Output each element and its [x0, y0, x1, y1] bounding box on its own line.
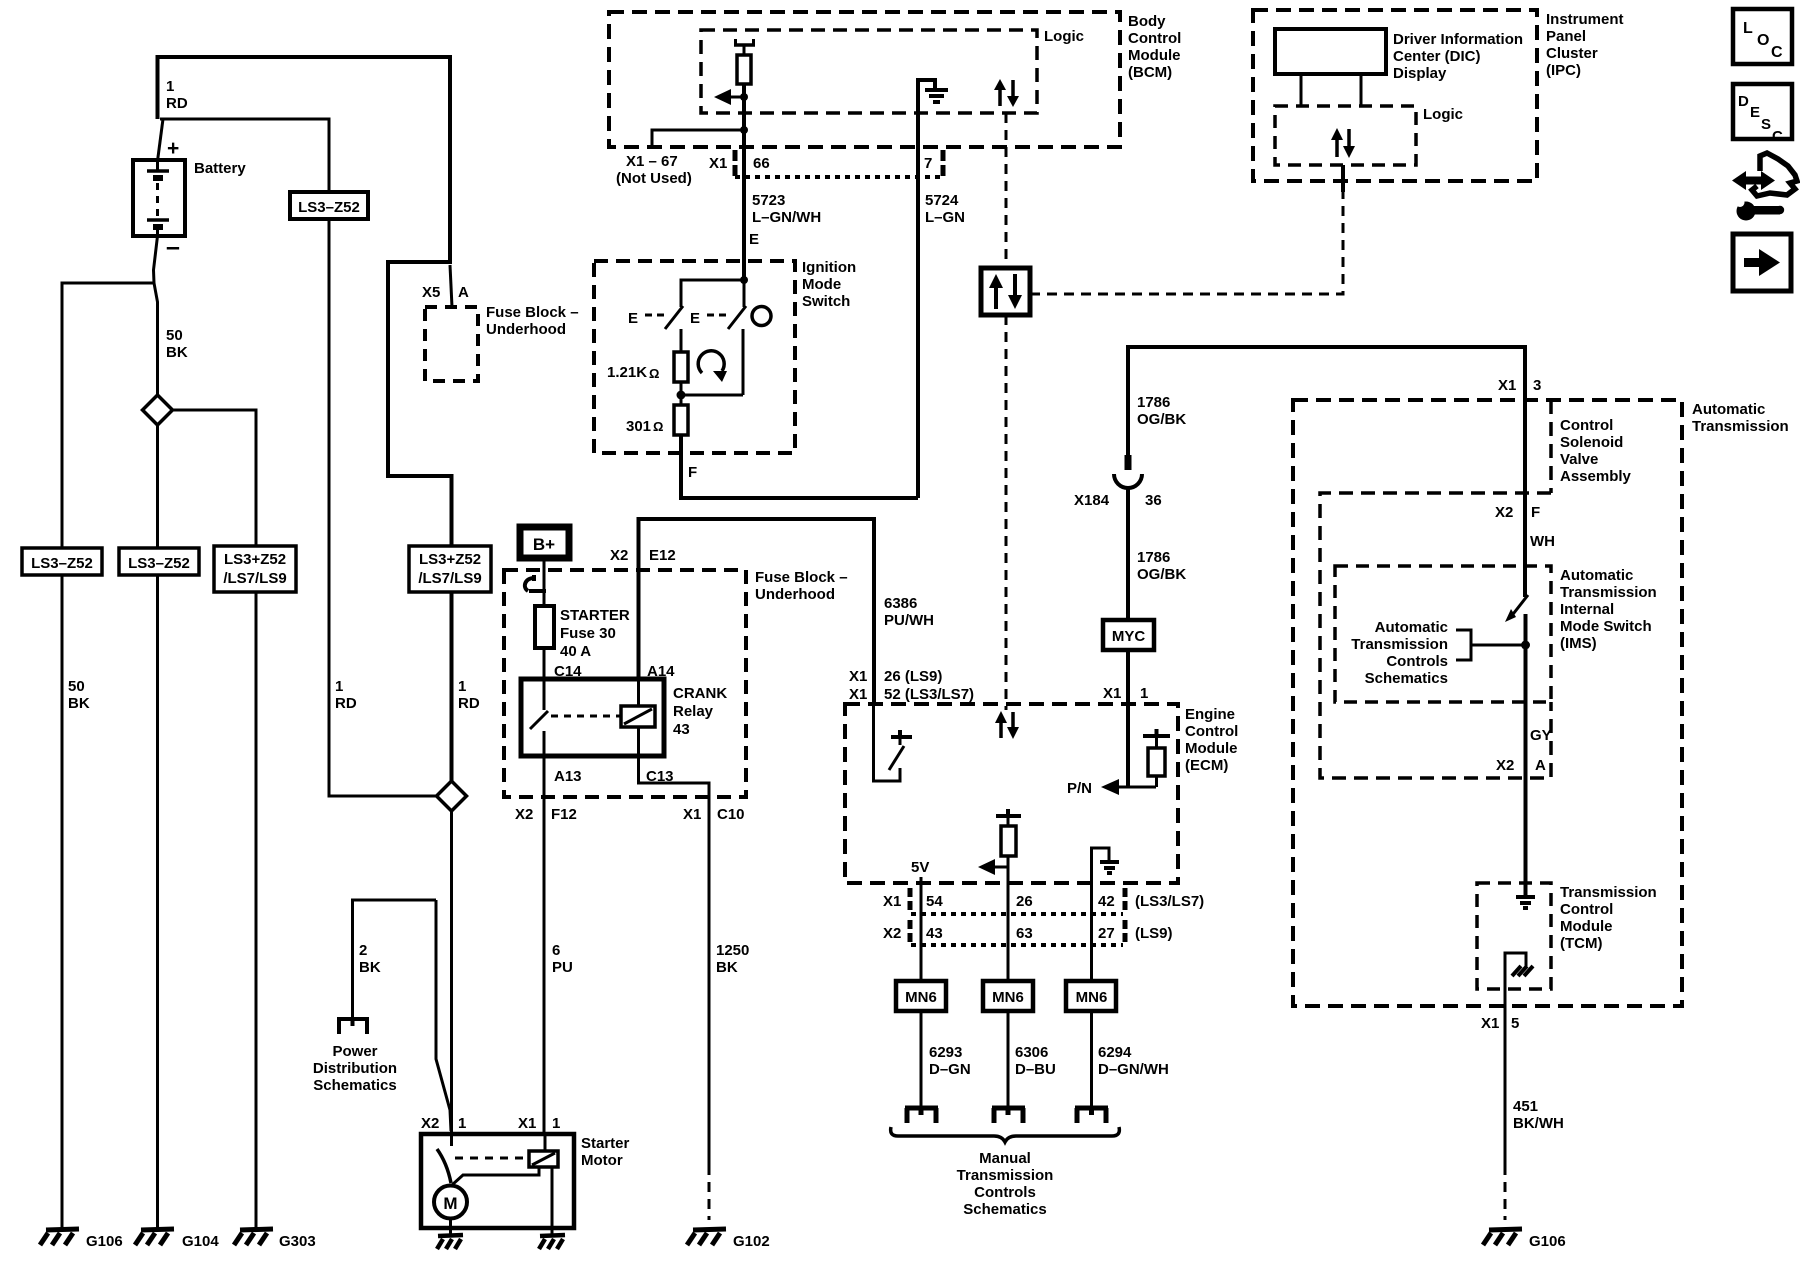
svg-text:6306: 6306 [1015, 1044, 1048, 1061]
terminal symbol (6293) [905, 1108, 938, 1123]
label manual transmission controls schematics [957, 1150, 1054, 1218]
rotary symbol [698, 351, 727, 382]
starter solenoid to motor link [452, 1167, 539, 1185]
wire 5723 L-GN/WH BCM pin 66 to ignition switch E [744, 147, 821, 280]
starter motor box [421, 1134, 630, 1228]
control solenoid valve dashed box [1320, 493, 1551, 778]
connector X1 pin 3 labels [1498, 377, 1541, 394]
svg-text:D–BU: D–BU [1015, 1061, 1056, 1078]
svg-text:1.21K: 1.21K [607, 364, 647, 381]
svg-text:Body: Body [1128, 13, 1166, 30]
svg-text:Manual: Manual [979, 1150, 1031, 1167]
svg-text:STARTER: STARTER [560, 607, 630, 624]
svg-text:Schematics: Schematics [963, 1201, 1046, 1218]
wire branch from diamond to column 3 [173, 410, 257, 1228]
svg-text:D–GN: D–GN [929, 1061, 971, 1078]
wire starter motor to ground [449, 1219, 452, 1234]
svg-text:WH: WH [1530, 533, 1555, 550]
svg-text:451: 451 [1513, 1098, 1538, 1115]
svg-text:Distribution: Distribution [313, 1060, 397, 1077]
wire ECM P/N sense with arrow [1067, 704, 1156, 797]
body control module BCM dashed box [609, 12, 1181, 147]
serial data arrows in BCM logic [994, 79, 1019, 107]
svg-text:Display: Display [1393, 65, 1447, 82]
svg-text:L: L [1743, 20, 1753, 37]
label 50 BK (left wire) [68, 678, 90, 712]
wire battery positive lead [158, 119, 164, 161]
wire crank relay A14 to ECM (6386 PU/WH) [639, 519, 935, 704]
svg-text:X1 – 67: X1 – 67 [626, 153, 678, 170]
connector box LS3+Z52/LS7/LS9 (column 3) [214, 546, 296, 592]
label 1 RD (battery bus) [166, 78, 188, 112]
svg-text:F: F [688, 464, 697, 481]
svg-text:CRANK: CRANK [673, 685, 727, 702]
wire 1250 BK relay C13 to G102 [639, 756, 750, 1220]
connector X1 pin 1 labels (starter) [518, 1115, 560, 1132]
connector X1 26/52 labels at ECM [849, 668, 974, 703]
svg-text:Underhood: Underhood [486, 321, 566, 338]
svg-text:GY: GY [1530, 727, 1552, 744]
resistor 1.21K ohm [607, 352, 688, 382]
svg-text:6294: 6294 [1098, 1044, 1132, 1061]
wire ECM pin 42/27 to MN6 [1090, 883, 1093, 981]
starter solenoid coil [529, 1134, 558, 1167]
svg-text:27: 27 [1098, 925, 1115, 942]
ignition mode switch dashed box [594, 259, 856, 453]
svg-text:54: 54 [926, 893, 943, 910]
icon DESC box [1733, 84, 1792, 145]
svg-text:301: 301 [626, 418, 651, 435]
label Power Distribution Schematics [313, 1043, 397, 1094]
ground starter solenoid [539, 1235, 565, 1249]
connector box LS3-Z52 (column 2) [119, 548, 199, 575]
svg-text:(TCM): (TCM) [1560, 935, 1602, 952]
svg-text:1: 1 [458, 678, 466, 695]
svg-text:Schematics: Schematics [313, 1077, 396, 1094]
serial data arrows in ECM [995, 711, 1019, 739]
resistor (BCM pull-up) with internal connection bar [734, 39, 755, 84]
wire 1788 OG/BK lower run to MYC [1128, 488, 1186, 620]
svg-text:Control: Control [1185, 723, 1238, 740]
svg-text:/LS7/LS9: /LS7/LS9 [418, 570, 481, 587]
svg-text:X2: X2 [421, 1115, 439, 1132]
svg-text:(Not Used): (Not Used) [616, 170, 692, 187]
svg-text:S: S [1761, 116, 1771, 133]
terminal symbol (6294) [1075, 1108, 1108, 1123]
svg-text:Control: Control [1128, 30, 1181, 47]
connector X1 C10 labels [683, 806, 745, 823]
svg-text:Engine: Engine [1185, 706, 1235, 723]
svg-text:Assembly: Assembly [1560, 468, 1632, 485]
ECM 5V reference stub [911, 859, 929, 890]
svg-text:X1: X1 [683, 806, 701, 823]
dashed serial data wire gateway to IPC [1030, 190, 1343, 294]
svg-text:E: E [749, 231, 759, 248]
svg-text:O: O [1757, 32, 1769, 49]
wire starter solenoid to ground [551, 1167, 554, 1234]
svg-text:Fuse 30: Fuse 30 [560, 625, 616, 642]
svg-text:Battery: Battery [194, 160, 246, 177]
dashed serial data wire gateway to ECM [1005, 315, 1008, 710]
connector box LS3-Z52 (top, feed wire) [290, 192, 368, 219]
svg-text:B+: B+ [533, 535, 555, 554]
svg-text:Controls: Controls [974, 1184, 1036, 1201]
svg-text:X2: X2 [1496, 757, 1514, 774]
svg-text:(LS9): (LS9) [1135, 925, 1173, 942]
svg-text:X2: X2 [883, 925, 901, 942]
svg-text:Automatic: Automatic [1692, 401, 1765, 418]
svg-text:Transmission: Transmission [1560, 584, 1657, 601]
automatic transmission dashed box [1293, 400, 1789, 1006]
svg-text:Automatic: Automatic [1375, 619, 1448, 636]
terminal symbol power distribution reference [337, 1019, 369, 1034]
svg-text:Internal: Internal [1560, 601, 1614, 618]
svg-text:6: 6 [552, 942, 560, 959]
brace manual transmission reference [891, 1127, 1120, 1142]
splice diamond (battery ground wire) [143, 395, 173, 425]
svg-text:M: M [443, 1194, 457, 1213]
svg-text:/LS7/LS9: /LS7/LS9 [223, 570, 286, 587]
BCM logic dashed box [701, 28, 1084, 113]
ground starter motor [437, 1235, 463, 1249]
svg-text:Mode Switch: Mode Switch [1560, 618, 1652, 635]
icon forward arrow box [1733, 234, 1791, 291]
svg-text:Ω: Ω [649, 366, 659, 381]
svg-text:X2: X2 [610, 547, 628, 564]
wire MYC to ECM pin X1-1 [1103, 650, 1148, 704]
svg-text:D–GN/WH: D–GN/WH [1098, 1061, 1169, 1078]
svg-text:X1: X1 [518, 1115, 536, 1132]
starter motor M [434, 1186, 467, 1219]
svg-text:2: 2 [359, 942, 367, 959]
svg-text:Motor: Motor [581, 1152, 623, 1169]
svg-text:42: 42 [1098, 893, 1115, 910]
wire 6294 D-GN/WH [1092, 1011, 1169, 1106]
svg-text:Ignition: Ignition [802, 259, 856, 276]
svg-text:1786: 1786 [1137, 549, 1170, 566]
svg-text:P/N: P/N [1067, 780, 1092, 797]
svg-text:OG/BK: OG/BK [1137, 566, 1186, 583]
svg-text:Control: Control [1560, 417, 1613, 434]
svg-text:66: 66 [753, 155, 770, 172]
svg-text:X1: X1 [849, 668, 867, 685]
wire 1 RD battery bus (thick) to fuse block feed [158, 57, 452, 796]
label 50 BK (battery wire) [166, 327, 188, 361]
svg-text:F12: F12 [551, 806, 577, 823]
battery [133, 137, 246, 261]
wire 5724 L-GN BCM pin 7 to ignition switch F junction [918, 147, 965, 498]
svg-text:Logic: Logic [1423, 106, 1463, 123]
connector X2 F12 labels [515, 806, 577, 823]
svg-text:X2: X2 [1495, 504, 1513, 521]
ECM connector rows X1/X2 [883, 888, 1204, 945]
svg-text:1: 1 [166, 78, 174, 95]
BCM internal ground [918, 80, 948, 147]
svg-text:Starter: Starter [581, 1135, 630, 1152]
wire 50 BK from battery negative down to G104 [154, 236, 158, 1228]
svg-text:X5: X5 [422, 284, 440, 301]
DIC display legs [1301, 74, 1361, 106]
dashed serial data wire BCM to gateway box [1005, 113, 1008, 267]
pin A13 label [554, 768, 582, 785]
svg-text:C: C [1772, 128, 1783, 145]
svg-text:Module: Module [1560, 918, 1613, 935]
svg-text:A: A [458, 284, 469, 301]
BCM connector row X1 pins 66 and 7 [709, 150, 943, 177]
svg-text:LS3+Z52: LS3+Z52 [224, 551, 286, 568]
svg-text:(IMS): (IMS) [1560, 635, 1597, 652]
svg-text:43: 43 [673, 721, 690, 738]
svg-text:3: 3 [1533, 377, 1541, 394]
svg-text:Module: Module [1185, 740, 1238, 757]
wire 6293 D-GN [921, 1011, 971, 1106]
serial data arrows in IPC logic [1331, 128, 1355, 158]
svg-text:26 (LS9): 26 (LS9) [884, 668, 942, 685]
svg-text:Logic: Logic [1044, 28, 1084, 45]
icon LOC box [1733, 9, 1792, 64]
svg-text:(IPC): (IPC) [1546, 62, 1581, 79]
reference bracket automatic transmission controls schematics [1351, 619, 1525, 687]
ECM crank request switch [874, 704, 913, 781]
svg-text:Switch: Switch [802, 293, 850, 310]
junction node below 1.21K [677, 382, 744, 400]
svg-text:Schematics: Schematics [1365, 670, 1448, 687]
svg-text:D: D [1738, 93, 1749, 110]
svg-text:RD: RD [458, 695, 480, 712]
control solenoid valve assembly boundary [1551, 400, 1632, 493]
svg-text:BK: BK [359, 959, 381, 976]
svg-text:Ω: Ω [653, 419, 663, 434]
connector box MN6 (1) [896, 981, 946, 1011]
wire 1 RD diamond to starter motor X2-1 [450, 811, 453, 1134]
svg-text:BK/WH: BK/WH [1513, 1115, 1564, 1132]
wire WH transmission feed [1495, 400, 1555, 597]
svg-text:C: C [1771, 44, 1783, 61]
svg-text:RD: RD [335, 695, 357, 712]
wire F output of ignition switch [681, 395, 918, 498]
svg-text:E12: E12 [649, 547, 676, 564]
pin C14 label [554, 663, 582, 680]
svg-text:43: 43 [926, 925, 943, 942]
svg-text:Automatic: Automatic [1560, 567, 1633, 584]
wire from battery positive to LS3-Z52 box [160, 119, 329, 192]
svg-text:PU/WH: PU/WH [884, 612, 934, 629]
svg-text:1: 1 [1140, 685, 1148, 702]
svg-text:G106: G106 [1529, 1233, 1566, 1250]
svg-text:RD: RD [166, 95, 188, 112]
starter solenoid switch [437, 1134, 528, 1183]
ground G303 [234, 1229, 316, 1250]
ground G106 (right) [1483, 1229, 1566, 1250]
svg-text:LS3+Z52: LS3+Z52 [419, 551, 481, 568]
svg-text:36: 36 [1145, 492, 1162, 509]
svg-text:OG/BK: OG/BK [1137, 411, 1186, 428]
TCM internal ground (top) [1516, 897, 1535, 908]
svg-text:Solenoid: Solenoid [1560, 434, 1623, 451]
svg-text:G303: G303 [279, 1233, 316, 1250]
svg-text:C10: C10 [717, 806, 745, 823]
connector box LS3-Z52 (column 1) [22, 548, 102, 575]
ground G106 (left) [40, 1229, 123, 1250]
wire 6 PU relay A13 to starter X1-1 [544, 756, 573, 1134]
svg-text:E: E [1750, 104, 1760, 121]
terminal symbol (6306) [992, 1108, 1025, 1123]
svg-text:Instrument: Instrument [1546, 11, 1624, 28]
svg-text:G102: G102 [733, 1233, 770, 1250]
DIC display box [1275, 29, 1523, 82]
svg-text:50: 50 [166, 327, 183, 344]
svg-text:X1: X1 [1481, 1015, 1499, 1032]
wire from LS3-Z52 box down to diamond 2 [329, 219, 437, 796]
svg-text:LS3–Z52: LS3–Z52 [128, 555, 190, 572]
svg-text:X1: X1 [849, 686, 867, 703]
svg-text:Underhood: Underhood [755, 586, 835, 603]
ECM internal ground [1092, 848, 1120, 883]
svg-text:MYC: MYC [1112, 628, 1146, 645]
icon vehicle data with wrench [1732, 153, 1797, 221]
svg-text:A14: A14 [647, 663, 675, 680]
connector box MN6 (3) [1066, 981, 1116, 1011]
wire 50 BK left branch from battery negative to G106 [62, 283, 154, 1228]
svg-text:Panel: Panel [1546, 28, 1586, 45]
svg-text:Cluster: Cluster [1546, 45, 1598, 62]
svg-text:Fuse Block –: Fuse Block – [755, 569, 848, 586]
TCM internal chassis ground (case) [1505, 953, 1533, 989]
svg-text:1: 1 [458, 1115, 466, 1132]
wire 5723 inside BCM [740, 84, 748, 147]
IPC logic dashed box [1275, 106, 1463, 165]
wire 6306 D-BU [1008, 1011, 1056, 1106]
svg-text:G106: G106 [86, 1233, 123, 1250]
automatic transmission internal mode switch IMS dashed box [1335, 566, 1657, 702]
svg-text:MN6: MN6 [992, 989, 1024, 1006]
svg-text:X1: X1 [1498, 377, 1516, 394]
svg-text:50: 50 [68, 678, 85, 695]
svg-text:X1: X1 [709, 155, 727, 172]
svg-text:1250: 1250 [716, 942, 749, 959]
svg-text:7: 7 [924, 155, 932, 172]
svg-text:1: 1 [335, 678, 343, 695]
svg-text:63: 63 [1016, 925, 1033, 942]
resistor 301 ohm [626, 405, 688, 435]
ground G102 [687, 1229, 770, 1250]
serial data stub below IPC logic [1341, 165, 1345, 192]
ground G104 [135, 1229, 219, 1250]
svg-text:LS3–Z52: LS3–Z52 [298, 199, 360, 216]
pin A14 label [647, 663, 675, 680]
svg-text:BK: BK [166, 344, 188, 361]
svg-text:L–GN: L–GN [925, 209, 965, 226]
svg-text:Transmission: Transmission [1351, 636, 1448, 653]
wire ECM pin 54/43 to MN6 [920, 890, 923, 981]
svg-text:A: A [1535, 757, 1546, 774]
svg-text:X1: X1 [1103, 685, 1121, 702]
engine control module ECM dashed box [845, 704, 1238, 883]
svg-text:Transmission: Transmission [957, 1167, 1054, 1184]
svg-text:Fuse Block –: Fuse Block – [486, 304, 579, 321]
fuse block underhood connector dashed box (X5) [425, 304, 579, 381]
wire B+ to starter fuse [543, 558, 546, 606]
splice diamond 2 (starter feed) [437, 781, 467, 811]
svg-text:40 A: 40 A [560, 643, 591, 660]
svg-text:Module: Module [1128, 47, 1181, 64]
svg-text:Power: Power [332, 1043, 377, 1060]
svg-text:E: E [628, 310, 638, 327]
svg-text:MN6: MN6 [1076, 989, 1108, 1006]
wire IMS to TCM (GY) [1496, 614, 1552, 896]
connector box MN6 (2) [983, 981, 1033, 1011]
IMS switch blade [1505, 595, 1528, 622]
ignition switch contacts [628, 276, 771, 395]
arrow ECM sense output [978, 856, 1008, 883]
transmission control module TCM dashed box [1477, 883, 1657, 989]
svg-text:G104: G104 [182, 1233, 219, 1250]
svg-text:6386: 6386 [884, 595, 917, 612]
wire ECM pin 26/63 to MN6 [1007, 883, 1010, 981]
connector X5-A stub [422, 265, 469, 307]
svg-text:PU: PU [552, 959, 573, 976]
svg-text:LS3–Z52: LS3–Z52 [31, 555, 93, 572]
connector box MYC [1103, 620, 1154, 650]
svg-text:5723: 5723 [752, 192, 785, 209]
svg-text:Transmission: Transmission [1692, 418, 1789, 435]
svg-text:(BCM): (BCM) [1128, 64, 1172, 81]
svg-text:BK: BK [68, 695, 90, 712]
svg-text:5724: 5724 [925, 192, 959, 209]
svg-text:Transmission: Transmission [1560, 884, 1657, 901]
svg-text:Valve: Valve [1560, 451, 1598, 468]
svg-text:Driver Information: Driver Information [1393, 31, 1523, 48]
svg-text:Center (DIC): Center (DIC) [1393, 48, 1481, 65]
svg-text:X1: X1 [883, 893, 901, 910]
svg-text:(LS3/LS7): (LS3/LS7) [1135, 893, 1204, 910]
pin C13 label [646, 768, 674, 785]
wire 451 BK/WH TCM to G106 [1481, 989, 1564, 1220]
svg-text:MN6: MN6 [905, 989, 937, 1006]
svg-text:F: F [1531, 504, 1540, 521]
B+ power terminal box [520, 527, 569, 558]
svg-text:Relay: Relay [673, 703, 714, 720]
svg-text:5: 5 [1511, 1015, 1519, 1032]
svg-text:L–GN/WH: L–GN/WH [752, 209, 821, 226]
svg-text:–: – [166, 233, 180, 261]
svg-text:Control: Control [1560, 901, 1613, 918]
fuse block underhood dashed box (main) [504, 569, 848, 797]
label 1 RD (column wire) [335, 678, 357, 712]
connector X2 E12 labels [610, 547, 676, 564]
label 1 RD (column 4 wire) [458, 678, 480, 712]
svg-text:X184: X184 [1074, 492, 1110, 509]
crank relay 43 [521, 679, 727, 756]
connector X184 pin 36 [1074, 455, 1162, 509]
svg-text:Controls: Controls [1386, 653, 1448, 670]
svg-text:E: E [690, 310, 700, 327]
serial data gateway box with arrows [981, 268, 1030, 315]
instrument panel cluster IPC dashed box [1253, 10, 1624, 181]
svg-text:BK: BK [716, 959, 738, 976]
svg-text:52 (LS3/LS7): 52 (LS3/LS7) [884, 686, 974, 703]
svg-text:5V: 5V [911, 859, 929, 876]
stub X1-67 not used [616, 130, 744, 187]
connector X2 pin 1 labels (starter) [421, 1115, 466, 1132]
svg-text:A13: A13 [554, 768, 582, 785]
fuse STARTER Fuse 30 40A [535, 606, 630, 660]
svg-text:6293: 6293 [929, 1044, 962, 1061]
resistor ECM 5V reference [996, 809, 1021, 856]
svg-text:(ECM): (ECM) [1185, 757, 1228, 774]
arrow output (BCM logic) [714, 89, 748, 105]
connector box LS3+Z52/LS7/LS9 (column 4) [409, 546, 491, 592]
